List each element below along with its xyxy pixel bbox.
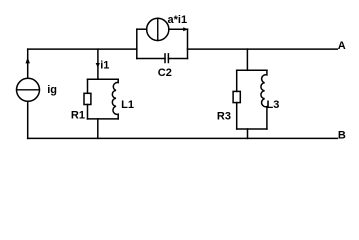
svg-text:B: B [338, 129, 346, 141]
wire tap of R1/L1 block to bottom rail [97, 119, 99, 138]
wire bottom rail: from left corner to terminal B [28, 137, 338, 139]
resistor R1 box [84, 93, 91, 104]
wire stub right of dependent source circle [169, 28, 188, 30]
wire bottom bar of R1/L1 block [88, 118, 119, 120]
wire left branch lower (from R1) [87, 105, 89, 119]
wire capacitor branch left [137, 58, 165, 60]
wire left branch lower (from R3) [236, 103, 238, 129]
svg-text:A: A [338, 40, 346, 52]
wire left rail lower: ig source bottom down to bottom rail [27, 101, 29, 138]
svg-text:a*i1: a*i1 [168, 14, 188, 26]
svg-text:R3: R3 [217, 110, 231, 122]
inductor L3 coil [261, 70, 267, 129]
arrow of current i1 (down) [96, 63, 100, 68]
svg-text:C2: C2 [158, 67, 172, 79]
wire feed of R3/L3 block [246, 49, 248, 70]
wire bottom bar of R3/L3 block [237, 128, 267, 130]
dependent current source a*i1: circle with vertical bar [147, 18, 169, 40]
wire top bar of R1/L1 block [88, 78, 119, 80]
wire left branch upper (to R1) [87, 79, 89, 93]
wire capacitor branch right [168, 58, 187, 60]
svg-text:L3: L3 [267, 99, 280, 111]
node: loop left vertical wire [136, 29, 138, 58]
wire left rail upper: corner down to ig source top [27, 49, 29, 78]
svg-text:L1: L1 [121, 99, 134, 111]
wire stub left of dependent source circle [137, 28, 147, 30]
arrow of dependent source a*i1 (right) [183, 27, 188, 31]
svg-text:i1: i1 [100, 60, 109, 72]
svg-text:R1: R1 [71, 109, 85, 121]
wire top right: from loop to terminal A [188, 48, 338, 50]
wire top left: from left rail corner to dependent-source loop [28, 48, 137, 50]
wire tap of R3/L3 block to bottom rail [247, 129, 249, 138]
current source ig: circle with horizontal bar [17, 78, 40, 101]
wire top bar of R3/L3 block [237, 69, 267, 71]
wire left branch upper (to R3) [236, 70, 238, 91]
svg-text:ig: ig [47, 84, 57, 96]
arrow of source ig (up) [26, 57, 30, 63]
resistor R3 box [233, 91, 240, 102]
inductor L1 coil [112, 79, 118, 119]
capacitor C2 plates [164, 54, 166, 63]
wire feed of R1/L1 block with current i1 [97, 49, 99, 79]
node: loop right vertical wire [187, 29, 189, 58]
